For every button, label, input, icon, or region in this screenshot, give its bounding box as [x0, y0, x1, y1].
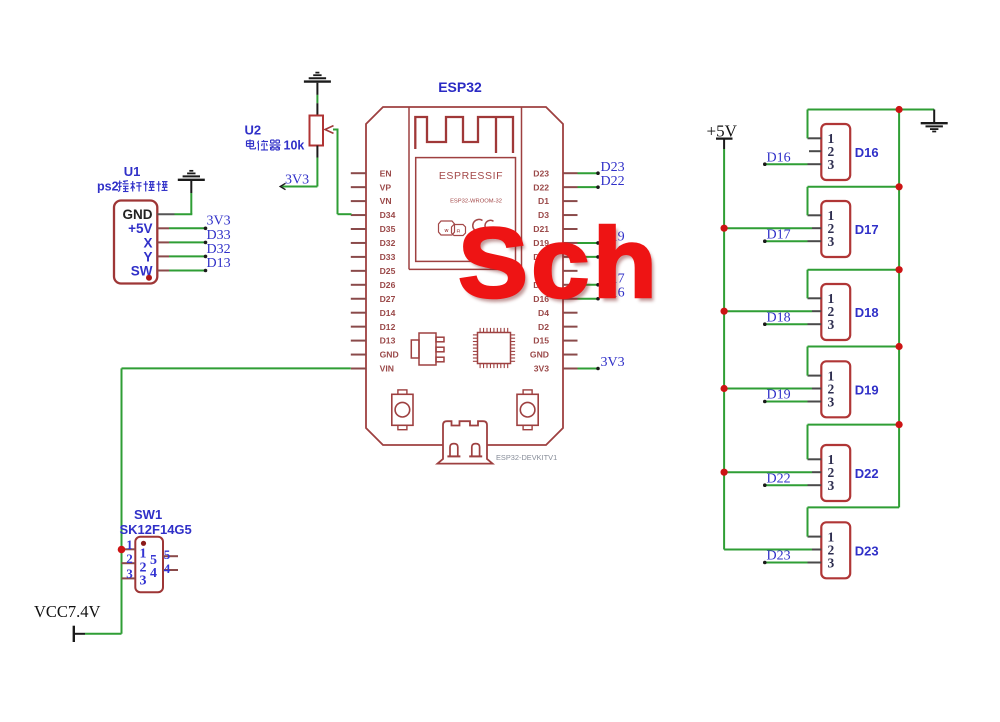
svg-text:ps2: ps2 [97, 180, 119, 194]
svg-text:ESP32-WROOM-32: ESP32-WROOM-32 [450, 199, 502, 205]
svg-text:5: 5 [164, 547, 171, 562]
svg-text:ESPRESSIF: ESPRESSIF [439, 170, 503, 182]
svg-text:D14: D14 [380, 308, 396, 318]
svg-text:1: 1 [140, 547, 147, 562]
svg-text:4: 4 [164, 561, 171, 576]
svg-text:D32: D32 [207, 242, 231, 257]
svg-text:D25: D25 [380, 266, 396, 276]
svg-text:D35: D35 [380, 224, 396, 234]
svg-text:3: 3 [126, 566, 133, 581]
svg-text:D15: D15 [533, 336, 549, 346]
svg-text:3: 3 [828, 317, 835, 332]
svg-text:D27: D27 [380, 294, 396, 304]
svg-text:3V3: 3V3 [534, 364, 550, 374]
svg-text:1: 1 [126, 537, 133, 552]
svg-text:D33: D33 [380, 252, 396, 262]
svg-text:D1: D1 [538, 196, 549, 206]
svg-text:GND: GND [380, 350, 399, 360]
svg-text:W: W [445, 228, 449, 233]
svg-text:D13: D13 [380, 336, 396, 346]
svg-text:3: 3 [140, 574, 147, 589]
svg-text:D17: D17 [767, 227, 791, 242]
svg-text:+5V: +5V [128, 221, 152, 236]
svg-text:D19: D19 [767, 388, 791, 403]
svg-text:X: X [143, 235, 152, 250]
svg-text:3: 3 [828, 555, 835, 570]
svg-text:3: 3 [828, 394, 835, 409]
svg-text:3V3: 3V3 [207, 214, 231, 229]
svg-text:D18: D18 [767, 310, 791, 325]
svg-text:D22: D22 [855, 466, 879, 481]
svg-text:SK12F14G5: SK12F14G5 [120, 522, 192, 537]
svg-text:VN: VN [380, 196, 392, 206]
svg-text:D33: D33 [207, 228, 231, 243]
svg-text:10k: 10k [284, 139, 305, 153]
svg-text:D23: D23 [767, 549, 791, 564]
svg-text:D32: D32 [380, 238, 396, 248]
svg-text:GND: GND [530, 350, 549, 360]
svg-text:SW1: SW1 [134, 507, 162, 522]
svg-text:ESP32: ESP32 [438, 79, 482, 95]
svg-text:3V3: 3V3 [285, 173, 309, 188]
svg-text:D22: D22 [533, 182, 549, 192]
svg-text:VIN: VIN [380, 364, 394, 374]
svg-text:2: 2 [126, 551, 133, 566]
svg-text:D23: D23 [601, 160, 625, 175]
svg-text:D22: D22 [601, 174, 625, 189]
svg-text:D19: D19 [855, 382, 879, 397]
svg-text:3: 3 [828, 157, 835, 172]
svg-text:EN: EN [380, 168, 392, 178]
svg-text:D17: D17 [855, 222, 879, 237]
svg-text:D34: D34 [380, 210, 396, 220]
svg-text:3: 3 [828, 234, 835, 249]
svg-text:D23: D23 [855, 543, 879, 558]
svg-text:U2: U2 [245, 123, 262, 138]
svg-text:D16: D16 [855, 145, 879, 160]
svg-text:D13: D13 [207, 256, 231, 271]
svg-text:VCC7.4V: VCC7.4V [34, 602, 101, 621]
svg-text:ESP32-DEVKITV1: ESP32-DEVKITV1 [496, 453, 557, 462]
svg-text:D16: D16 [767, 150, 791, 165]
svg-text:D23: D23 [533, 168, 549, 178]
svg-text:Y: Y [143, 249, 152, 264]
svg-text:D22: D22 [767, 471, 791, 486]
svg-text:D12: D12 [380, 322, 396, 332]
svg-text:D26: D26 [380, 280, 396, 290]
svg-text:3V3: 3V3 [601, 355, 625, 370]
svg-text:VP: VP [380, 182, 392, 192]
svg-text:3: 3 [828, 478, 835, 493]
svg-text:4: 4 [150, 566, 157, 581]
svg-text:D2: D2 [538, 322, 549, 332]
svg-text:U1: U1 [124, 164, 141, 179]
svg-text:D18: D18 [855, 305, 879, 320]
svg-text:GND: GND [123, 207, 153, 222]
